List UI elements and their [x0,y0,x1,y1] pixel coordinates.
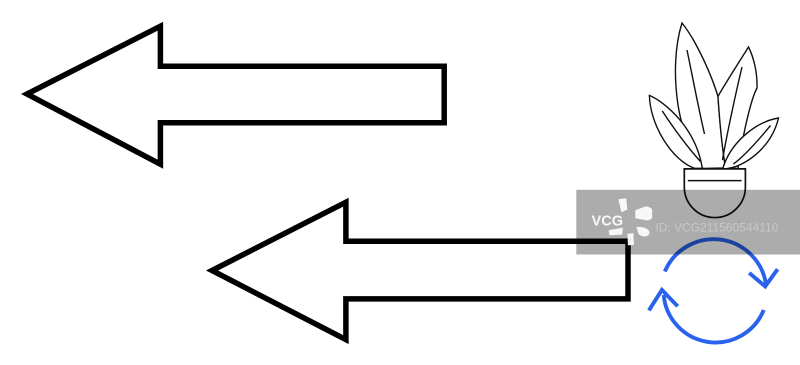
plant leaf L1 (front-left) [649,95,702,168]
potted plant group [649,23,778,218]
logo petal top-right [635,206,652,220]
watermark gray band [576,190,800,255]
plant leaf L2 (tall back-left) [675,23,725,169]
plant leaf L4 (front-right) [723,118,779,170]
plant pot [684,169,745,218]
refresh right arrowhead [749,269,777,286]
logo petal bottom-right [637,227,650,236]
svg-text:ID: VCG211560544110: ID: VCG211560544110 [655,221,778,235]
refresh left arrowhead [649,290,678,311]
plant leaf L3 midrib [723,67,743,160]
plant leaf L4 midrib [734,126,771,165]
logo petal top [618,198,627,212]
refresh top arc [665,239,766,284]
arrow A2 (large left arrow, bottom) [212,202,628,339]
arrow A1 (large left arrow, top) [27,26,444,164]
logo petal bottom-left [609,228,623,236]
blue refresh icon [649,239,778,342]
plant leaf L3 (tall back-right) [718,47,757,169]
refresh bottom arc [664,295,764,342]
plant leaf L2 midrib [687,50,705,134]
plant pot rim line [688,180,742,182]
watermark flower logo [609,198,652,245]
svg-text:VCG: VCG [592,213,624,229]
logo petal bottom [628,233,634,245]
plant leaf L1 midrib [662,111,700,162]
